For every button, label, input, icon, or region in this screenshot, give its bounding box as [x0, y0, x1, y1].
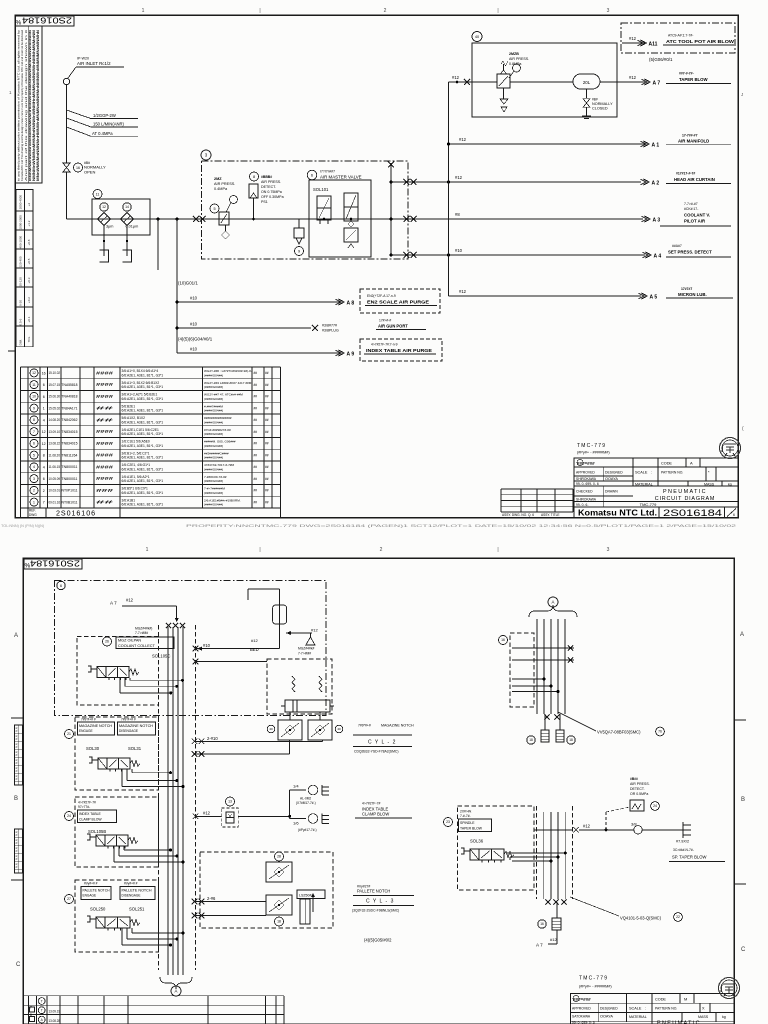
- svg-text:################: ################: [204, 416, 232, 420]
- svg-text:(####/G04##): (####/G04##): [204, 373, 223, 377]
- svg-text:1: 1: [43, 407, 45, 411]
- svg-text:+0.2: +0.2: [27, 297, 31, 303]
- svg-text:MGZ OILPAN: MGZ OILPAN: [118, 639, 141, 643]
- svg-text:5/6:A1X2, B1X2: 5/6:A1X2, B1X2: [122, 416, 146, 420]
- svg-text:SP. TAPER BLOW: SP. TAPER BLOW: [672, 855, 706, 860]
- svg-text:CDQ2B32-YSD-F78A2(SMC): CDQ2B32-YSD-F78A2(SMC): [354, 750, 398, 754]
- svg-text:6/6:A2E1, A3E1, B1*1, G3*1: 6/6:A2E1, A3E1, B1*1, G3*1: [122, 503, 164, 507]
- svg-text:VQ4101-5-03-Q(SMC): VQ4101-5-03-Q(SMC): [620, 916, 662, 921]
- svg-text:2-#10: 2-#10: [207, 736, 218, 741]
- svg-text:1/6:A2E1,C1E1 5/6:C2E1: 1/6:A2E1,C1E1 5/6:C2E1: [122, 428, 160, 432]
- svg-text:MAGAZINE NOTCH: MAGAZINE NOTCH: [381, 724, 414, 728]
- svg-text:150 L/MIN(ANR): 150 L/MIN(ANR): [93, 122, 125, 127]
- svg-text:#10: #10: [455, 248, 463, 253]
- svg-text:2S016106: 2S016106: [56, 511, 96, 518]
- svg-text:11.08.20: 11.08.20: [49, 453, 61, 457]
- svg-text:WG2Y-##7 47, ATC#z#-##M: WG2Y-##7 47, ATC#z#-##M: [204, 393, 243, 397]
- svg-text:OR 0.5MPa: OR 0.5MPa: [630, 792, 648, 796]
- svg-text:47#47A9-7#17-#-7#M: 47#47A9-7#17-#-7#M: [204, 463, 235, 467]
- svg-text:|: |: [497, 547, 498, 553]
- svg-text:4>7#27F-7#: 4>7#27F-7#: [78, 801, 96, 805]
- svg-text:(####/G04##): (####/G04##): [204, 479, 223, 483]
- svg-text:TN800011: TN800011: [62, 477, 78, 481]
- svg-text:###=###: ###=###: [573, 997, 591, 1002]
- svg-text:6/6:A2E1, A3E1, B1*1, G3*1: 6/6:A2E1, A3E1, B1*1, G3*1: [122, 385, 164, 389]
- svg-text:7-#-7#-: 7-#-7#-: [460, 814, 471, 818]
- svg-text:CIRCUIT DIAGRAM: CIRCUIT DIAGRAM: [655, 496, 715, 502]
- svg-text:6/6:A2E1, A3E1, B1*1, G3*1: 6/6:A2E1, A3E1, B1*1, G3*1: [122, 409, 164, 413]
- svg-text:PALLETE NOTCH: PALLETE NOTCH: [357, 889, 390, 894]
- svg-text:3/8: 3/8: [631, 822, 637, 827]
- svg-text:APPROVED: APPROVED: [572, 1007, 591, 1011]
- svg-text:1/4: 1/4: [293, 784, 299, 789]
- svg-text:##: ##: [265, 442, 269, 446]
- svg-text:13.09.10: 13.09.10: [49, 430, 61, 434]
- svg-text:A 3: A 3: [653, 217, 661, 223]
- svg-text:##: ##: [265, 465, 269, 469]
- svg-text:C Y L - 3: C Y L - 3: [366, 899, 394, 905]
- svg-text:6/6:A2E1, A3E1, B1*1, G3*1: 6/6:A2E1, A3E1, B1*1, G3*1: [122, 432, 164, 436]
- svg-text:4: 4: [43, 465, 45, 469]
- svg-text:#12: #12: [203, 811, 211, 816]
- svg-text:(10)G01/1: (10)G01/1: [178, 281, 198, 286]
- svg-text:7#9*#+# #: 7#9*#+# #: [81, 717, 96, 721]
- svg-text:11.06.15: 11.06.15: [49, 465, 61, 469]
- svg-text:2: 2: [380, 547, 383, 553]
- svg-text:#12: #12: [629, 75, 637, 80]
- svg-text:CHECKED: CHECKED: [576, 490, 593, 494]
- svg-text:(5)G06/#0/1: (5)G06/#0/1: [649, 57, 673, 62]
- svg-text:A 9: A 9: [347, 351, 355, 357]
- svg-text:NT0P1011: NT0P1011: [62, 489, 78, 493]
- svg-text:PATTERN NO.: PATTERN NO.: [655, 1007, 677, 1011]
- svg-text:16: 16: [501, 638, 505, 642]
- svg-text:TMC-779: TMC-779: [640, 502, 657, 507]
- svg-text:18: 18: [277, 920, 281, 924]
- svg-text:##: ##: [96, 406, 115, 411]
- svg-text:CLAMP BLOW: CLAMP BLOW: [79, 818, 102, 822]
- svg-text:SOL36: SOL36: [470, 839, 484, 844]
- svg-text:####: ####: [96, 464, 114, 469]
- svg-text:PNEUMATIC: PNEUMATIC: [657, 1021, 701, 1024]
- svg-text:DRAWN: DRAWN: [605, 490, 618, 494]
- svg-text:(####/G04##): (####/G04##): [204, 491, 223, 495]
- svg-text:15.10.02: 15.10.02: [49, 371, 61, 375]
- svg-text:24: 24: [653, 804, 657, 808]
- svg-text:CLOSED: CLOSED: [592, 107, 608, 111]
- svg-text:0.01μm: 0.01μm: [126, 225, 139, 229]
- svg-text:MASS: MASS: [698, 1015, 709, 1019]
- svg-text:#12: #12: [459, 289, 467, 294]
- svg-text:A: A: [175, 989, 178, 994]
- svg-text:MATERIAL: MATERIAL: [629, 1015, 647, 1019]
- svg-text:16: 16: [42, 371, 46, 375]
- svg-text:NORMALLY: NORMALLY: [592, 102, 613, 106]
- svg-text:4>7#27F-7#: 4>7#27F-7#: [362, 802, 380, 806]
- svg-text:2S016184: 2S016184: [29, 559, 80, 568]
- svg-text:2000-4000: 2000-4000: [19, 195, 23, 210]
- svg-text:#12: #12: [452, 75, 460, 80]
- svg-text:(#Py#+ - #####M#): (#Py#+ - #####M#): [577, 451, 610, 455]
- svg-text:(X7#M17-7#-): (X7#M17-7#-): [296, 801, 316, 805]
- svg-text:99- 0- 699- 0- 6: 99- 0- 699- 0- 6: [572, 1021, 595, 1024]
- svg-text:DETECT.: DETECT.: [630, 787, 645, 791]
- svg-text:2: 2: [33, 489, 35, 493]
- svg-text::: :: [651, 471, 652, 475]
- svg-text:13.09.19: 13.09.19: [49, 1010, 61, 1014]
- svg-text:21: 21: [67, 732, 71, 736]
- svg-text:PROPERTY:NNCNTMC-779 DWG=2S01: PROPERTY:NNCNTMC-779 DWG=2S016184 (PAGEN…: [186, 523, 736, 528]
- svg-text:6-30: 6-30: [19, 300, 23, 306]
- svg-text:#10: #10: [190, 347, 198, 352]
- svg-text:09.01.16: 09.01.16: [49, 500, 61, 504]
- svg-text:MGZ#4#k#): MGZ#4#k#): [135, 627, 152, 631]
- svg-text:1/6:A1E1, 5/6:A2*1: 1/6:A1E1, 5/6:A2*1: [122, 475, 150, 479]
- svg-text:####: ####: [96, 382, 114, 387]
- svg-text:ENGAGE: ENGAGE: [83, 894, 97, 898]
- svg-text:IP-W20: IP-W20: [77, 57, 89, 61]
- svg-text:10: 10: [32, 395, 36, 399]
- svg-text:HEAD AIR CURTAIN: HEAD AIR CURTAIN: [674, 177, 715, 182]
- svg-text:+0.3: +0.3: [27, 277, 31, 283]
- svg-text:4: 4: [43, 418, 45, 422]
- svg-text:(####/G04##): (####/G04##): [204, 456, 223, 460]
- svg-text:#12: #12: [583, 824, 591, 829]
- svg-text:1: 1: [142, 8, 145, 14]
- svg-text:5: 5: [33, 453, 35, 457]
- svg-text:6/6:A2E1, A3E1, B1*1, G3*1: 6/6:A2E1, A3E1, B1*1, G3*1: [122, 397, 164, 401]
- svg-text:ASSY. TITLE: ASSY. TITLE: [541, 513, 559, 517]
- svg-text:2MZB: 2MZB: [509, 52, 519, 56]
- svg-text:1: 1: [33, 500, 35, 504]
- svg-text:####: ####: [96, 370, 114, 375]
- svg-text:PALLETE NOTCH: PALLETE NOTCH: [122, 889, 153, 893]
- svg-text:#3/8PLUG: #3/8PLUG: [322, 329, 339, 333]
- svg-text:#CK#:17-: #CK#:17-: [684, 207, 698, 211]
- svg-text:A: A: [14, 633, 18, 639]
- svg-text:5: 5: [213, 207, 215, 211]
- svg-text:7: 7: [30, 1006, 32, 1010]
- svg-text:7: 7: [33, 430, 35, 434]
- svg-text:ASSY. DWG. NO. Q. 6: ASSY. DWG. NO. Q. 6: [502, 513, 534, 517]
- svg-text:+2: +2: [27, 203, 31, 207]
- svg-text:99- 0- 6-: 99- 0- 6-: [576, 503, 588, 507]
- svg-text:1: 1: [146, 547, 149, 553]
- svg-text::: :: [645, 1007, 646, 1011]
- svg-text:3: 3: [607, 8, 610, 14]
- svg-text:PS1: PS1: [261, 200, 268, 204]
- svg-text:AIR GUN PORT: AIR GUN PORT: [378, 324, 408, 329]
- svg-text:%: %: [16, 20, 22, 27]
- svg-text:(####/G04##): (####/G04##): [204, 432, 223, 436]
- svg-text:(4)(5)G05/#0/2: (4)(5)G05/#0/2: [364, 938, 392, 943]
- svg-text:+1.2: +1.2: [27, 220, 31, 226]
- svg-text:SET PRESS. DETECT: SET PRESS. DETECT: [668, 250, 712, 255]
- svg-text:6: 6: [733, 513, 735, 517]
- svg-text:AIR INLET Rc1/2: AIR INLET Rc1/2: [77, 61, 111, 66]
- svg-text:2S016184: 2S016184: [663, 507, 722, 518]
- svg-text:#Vy#+# #: #Vy#+# #: [84, 882, 98, 886]
- svg-text:#12: #12: [459, 137, 467, 142]
- svg-text:#B#: #B#: [592, 98, 598, 102]
- svg-text:##: ##: [265, 371, 269, 375]
- svg-text:(####/G04##): (####/G04##): [204, 467, 223, 471]
- svg-text:N.N: N.N: [15, 775, 19, 780]
- svg-text:27: 27: [67, 897, 71, 901]
- svg-text:##: ##: [254, 383, 258, 387]
- svg-text:7-7>#M#: 7-7>#M#: [298, 652, 311, 656]
- svg-text:##: ##: [254, 500, 258, 504]
- svg-text:13: 13: [228, 800, 232, 804]
- svg-text:+0.8: +0.8: [27, 239, 31, 245]
- svg-text:10.03.01: 10.03.01: [49, 489, 61, 493]
- svg-text:kg: kg: [728, 482, 732, 486]
- svg-text:#12: #12: [126, 598, 134, 603]
- svg-text:SOL251: SOL251: [129, 907, 145, 912]
- svg-text:AIR PRESS.: AIR PRESS.: [630, 782, 650, 786]
- svg-text:TOL:NNN) (N (P/N) N)(N): TOL:NNN) (N (P/N) N)(N): [1, 524, 45, 528]
- svg-text:2: 2: [384, 8, 387, 14]
- svg-text:1/6:C2E1, 4/6:G1*1: 1/6:C2E1, 4/6:G1*1: [122, 463, 151, 467]
- svg-text:(#Py#+ - #####M#): (#Py#+ - #####M#): [579, 985, 612, 989]
- svg-text:AIR PRESS.: AIR PRESS.: [509, 57, 529, 61]
- svg-text:17-7##-#7: 17-7##-#7: [682, 134, 698, 138]
- svg-text:TNA55818: TNA55818: [62, 383, 78, 387]
- svg-text:+0.1: +0.1: [27, 316, 31, 322]
- svg-text:#7C#-###9#27#-##: #7C#-###9#27#-##: [204, 428, 231, 432]
- svg-text:##7-#-7#-: ##7-#-7#-: [679, 72, 694, 76]
- svg-text:3μm: 3μm: [106, 225, 113, 229]
- svg-text:#12: #12: [550, 937, 557, 942]
- svg-text:##: ##: [254, 477, 258, 481]
- svg-text:#Vy#+# #: #Vy#+# #: [124, 882, 138, 886]
- svg-text:6: 6: [60, 584, 62, 588]
- svg-text:##: ##: [96, 417, 115, 422]
- svg-text:3/6:A1+0, B1X4 6/6:A1*4: 3/6:A1+0, B1X4 6/6:A1*4: [122, 369, 159, 373]
- svg-text:DIM.: DIM.: [19, 339, 23, 345]
- svg-text:40: 40: [475, 35, 479, 39]
- svg-text:AL-0M2: AL-0M2: [300, 797, 311, 801]
- svg-text:SOL105C: SOL105C: [152, 654, 170, 659]
- svg-text:5/6:B2E1: 5/6:B2E1: [122, 404, 136, 408]
- svg-text:N.N: N.N: [15, 743, 19, 748]
- svg-text:6: 6: [43, 383, 45, 387]
- svg-text:#####M. G05, G06###: #####M. G05, G06###: [204, 440, 236, 444]
- svg-text:##: ##: [254, 465, 258, 469]
- svg-text:28: 28: [277, 855, 281, 859]
- svg-text:#8: #8: [455, 212, 460, 217]
- svg-text:##: ##: [254, 395, 258, 399]
- svg-text:3/6:B1+2, 5/6:C2*1: 3/6:B1+2, 5/6:C2*1: [122, 451, 150, 455]
- svg-text:##: ##: [265, 489, 269, 493]
- svg-text:LS250#: LS250#: [299, 894, 311, 898]
- svg-text:3/6:B5*1 6/6:C9*1: 3/6:B5*1 6/6:C9*1: [122, 487, 149, 491]
- svg-text:#12: #12: [455, 175, 463, 180]
- svg-text:COOLANT V.: COOLANT V.: [684, 213, 710, 218]
- svg-text:N.N: N.N: [15, 767, 19, 772]
- svg-text:MAGAZINE NOTCH: MAGAZINE NOTCH: [79, 724, 113, 728]
- svg-text:##: ##: [254, 371, 258, 375]
- svg-text:MASS: MASS: [704, 482, 715, 486]
- svg-text:97>77#-: 97>77#-: [78, 805, 90, 809]
- svg-text:COOLANT COLLECT: COOLANT COLLECT: [118, 644, 156, 648]
- svg-text:TNA40818: TNA40818: [62, 395, 78, 399]
- svg-text:13.08.22: 13.08.22: [49, 442, 61, 446]
- svg-text:CODE: CODE: [655, 998, 666, 1002]
- svg-text:#BBB#: #BBB#: [261, 175, 272, 179]
- svg-text:7-7>#-#7: 7-7>#-#7: [684, 202, 698, 206]
- svg-text:12: 12: [42, 430, 46, 434]
- svg-text:PNEUMATIC: PNEUMATIC: [663, 489, 707, 495]
- svg-text:Komatsu NTC Ltd.: Komatsu NTC Ltd.: [578, 507, 657, 517]
- svg-text:#12: #12: [311, 628, 318, 633]
- svg-text:6/6:A2E1, A3E1, B1*1, G3*1: 6/6:A2E1, A3E1, B1*1, G3*1: [122, 467, 164, 471]
- svg-text:INDEX TABLE: INDEX TABLE: [79, 812, 101, 816]
- svg-text:2X#>#k: 2X#>#k: [460, 810, 472, 814]
- svg-text:+0.5: +0.5: [27, 258, 31, 264]
- svg-text:24: 24: [67, 814, 71, 818]
- svg-text:ATC TOOL POT AIR BLOW: ATC TOOL POT AIR BLOW: [666, 39, 734, 44]
- svg-text:##A#7: ##A#7: [672, 244, 682, 248]
- svg-text:6/6:A2E1, A3E1, B1*1, G3*1: 6/6:A2E1, A3E1, B1*1, G3*1: [122, 444, 164, 448]
- svg-text:1/6:C1E1 5/6:A5E0: 1/6:C1E1 5/6:A5E0: [122, 440, 150, 444]
- svg-text:##: ##: [254, 430, 258, 434]
- svg-text:#3/8#77#: #3/8#77#: [322, 324, 337, 328]
- svg-text:OOAYA: OOAYA: [600, 1015, 613, 1019]
- svg-text:TN84A171: TN84A171: [62, 406, 78, 410]
- svg-text:#17#17-#-7#: #17#17-#-7#: [676, 172, 695, 176]
- svg-text:#10: #10: [203, 643, 211, 648]
- svg-text:C Y L - 2: C Y L - 2: [368, 740, 396, 746]
- svg-text:PILOT AIR: PILOT AIR: [684, 219, 706, 224]
- svg-text:11: 11: [32, 383, 36, 387]
- svg-text:A 8: A 8: [347, 300, 355, 306]
- svg-text:0.4MPa: 0.4MPa: [214, 187, 228, 191]
- svg-text:8: 8: [30, 1013, 32, 1017]
- svg-text:(####/G04##): (####/G04##): [204, 409, 223, 413]
- svg-text:(####/G04##): (####/G04##): [204, 397, 223, 401]
- svg-text:7#9*#+#: 7#9*#+#: [358, 724, 371, 728]
- svg-text:9: 9: [33, 406, 35, 410]
- svg-text:SCALE: SCALE: [635, 471, 648, 475]
- svg-text:A: A: [552, 600, 555, 605]
- svg-text:(####/G04##): (####/G04##): [204, 420, 223, 424]
- svg-text:11: 11: [96, 192, 100, 196]
- svg-text:###=###: ###=###: [577, 461, 595, 466]
- svg-text:T: T: [41, 999, 43, 1003]
- svg-text:TAPER BLOW: TAPER BLOW: [679, 77, 709, 82]
- svg-text:##: ##: [96, 500, 115, 505]
- svg-text:8: 8: [253, 175, 255, 179]
- svg-text:ON 0.75MPa: ON 0.75MPa: [261, 190, 282, 194]
- svg-text:C: C: [16, 962, 21, 968]
- svg-text:A11: A11: [649, 41, 658, 47]
- svg-text:120-400: 120-400: [19, 256, 23, 267]
- svg-text:7: 7: [43, 501, 45, 505]
- svg-text:|: |: [259, 8, 260, 14]
- svg-text:SCALE: SCALE: [629, 1007, 642, 1011]
- svg-text:##: ##: [254, 442, 258, 446]
- svg-text:##2######C####: ##2######C####: [204, 451, 229, 455]
- svg-text:TN834015: TN834015: [62, 442, 78, 446]
- svg-text:##: ##: [265, 418, 269, 422]
- svg-text:C: C: [741, 947, 746, 953]
- svg-text:6: 6: [43, 395, 45, 399]
- svg-text:23: 23: [446, 820, 450, 824]
- svg-text:##: ##: [265, 395, 269, 399]
- svg-text:TOL: TOL: [27, 336, 31, 342]
- svg-text:3C>#k#-N-7#-: 3C>#k#-N-7#-: [673, 848, 694, 852]
- svg-text:A 1: A 1: [652, 142, 660, 148]
- svg-text:6/6:A2E1, A3E1, B1*1, G3*1: 6/6:A2E1, A3E1, B1*1, G3*1: [122, 456, 164, 460]
- svg-text:12: 12: [42, 442, 46, 446]
- svg-text:DWG: DWG: [29, 513, 37, 517]
- svg-text:##: ##: [265, 430, 269, 434]
- svg-text:2MZ: 2MZ: [214, 177, 222, 181]
- svg-text:DETECT.: DETECT.: [261, 185, 276, 189]
- svg-text:ENGAGE: ENGAGE: [79, 729, 93, 733]
- svg-text:##: ##: [254, 406, 258, 410]
- svg-text:DISENGAGE: DISENGAGE: [122, 894, 141, 898]
- svg-text:CODE: CODE: [661, 462, 672, 466]
- svg-text:N.N: N.N: [15, 759, 19, 764]
- svg-text:1/6: 1/6: [293, 821, 299, 826]
- svg-text:#10: #10: [190, 296, 198, 301]
- svg-text:A 7: A 7: [653, 80, 661, 86]
- svg-text:B: B: [14, 796, 18, 802]
- svg-text:##: ##: [254, 453, 258, 457]
- svg-text:3/6:A1+3, B1X2 6/6:B1X2: 3/6:A1+3, B1X2 6/6:B1X2: [122, 381, 160, 385]
- svg-text:|: |: [259, 547, 260, 553]
- svg-text:14: 14: [125, 205, 129, 209]
- svg-text:#12: #12: [629, 36, 637, 41]
- svg-text:##: ##: [254, 489, 258, 493]
- svg-text:#12: #12: [251, 638, 258, 643]
- svg-text:SATOKAWA: SATOKAWA: [572, 1015, 591, 1019]
- svg-text:SHIROKAWA: SHIROKAWA: [576, 477, 597, 481]
- svg-text:WG2Y-### : L#7#7C#9#z##-9#(-#: WG2Y-### : L#7#7C#9#z##-9#(-#-: [204, 369, 252, 373]
- svg-text:N.N: N.N: [15, 847, 19, 852]
- svg-text:(#Py#17-7#-): (#Py#17-7#-): [298, 828, 317, 832]
- svg-text:MAGAZINE NOTCH: MAGAZINE NOTCH: [119, 724, 154, 728]
- svg-text:2: 2: [43, 489, 45, 493]
- svg-text:(####/G04##): (####/G04##): [204, 444, 223, 448]
- svg-text:A 7: A 7: [110, 601, 117, 606]
- svg-text:N.N: N.N: [15, 735, 19, 740]
- svg-text:14.08.20: 14.08.20: [49, 418, 61, 422]
- svg-text:76: 76: [658, 730, 662, 734]
- svg-text:0.5-6: 0.5-6: [19, 318, 23, 325]
- svg-text:WG2Y-##4 L####-#K#7 4217 ##M: WG2Y-##4 L####-#K#7 4217 ##M: [204, 381, 252, 385]
- svg-text:2-#6: 2-#6: [207, 896, 216, 901]
- svg-text:TMC-779: TMC-779: [577, 443, 606, 449]
- svg-text:15.06.30: 15.06.30: [49, 395, 61, 399]
- svg-text:TAPER BLOW: TAPER BLOW: [460, 827, 483, 831]
- svg-text:AIR PRESS.: AIR PRESS.: [214, 182, 235, 186]
- svg-text:N.N: N.N: [15, 839, 19, 844]
- svg-text:9: 9: [298, 249, 300, 253]
- svg-text:OOAYA: OOAYA: [605, 477, 618, 481]
- svg-text:OFF 0.30MPa: OFF 0.30MPa: [261, 195, 284, 199]
- svg-text:MNnWMNMnNMNMnHMNWnMNMNnMNHMnNM: MNnWMNMnNMNMnHMNWnMNMNnMNHMnNMNWnMNMNMNn…: [36, 29, 40, 181]
- svg-text:TMC-779: TMC-779: [579, 976, 608, 982]
- svg-text:##: ##: [254, 418, 258, 422]
- svg-text:DES|GNED: DES|GNED: [600, 1007, 618, 1011]
- svg-text:A 7: A 7: [536, 943, 543, 948]
- svg-text:15.05.02: 15.05.02: [49, 406, 61, 410]
- svg-text:#B##: #B##: [630, 777, 638, 781]
- svg-text:6/6:A2E1, A3E1, B1*1, G3*1: 6/6:A2E1, A3E1, B1*1, G3*1: [122, 479, 164, 483]
